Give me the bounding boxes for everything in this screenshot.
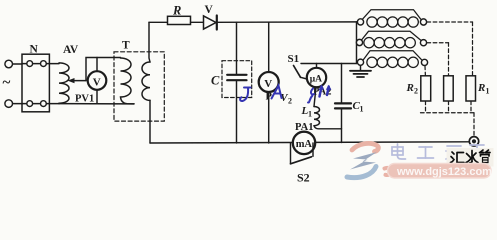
wire: PA2 to L1	[314, 87, 316, 106]
char 下 (mostly hidden)	[470, 145, 484, 157]
connector N box	[22, 54, 49, 112]
svg-text:C: C	[211, 74, 220, 88]
resistor R2	[421, 76, 431, 101]
wire: C1 branch vertical	[341, 64, 343, 104]
char 电	[392, 144, 406, 159]
milliammeter PA1 (mA)	[293, 132, 315, 154]
node: water collector terminal (bullseye)	[469, 137, 478, 146]
char 天	[446, 146, 462, 159]
char 工	[418, 147, 434, 158]
switch S2 bypass loop	[290, 143, 292, 164]
svg-text:R: R	[406, 82, 414, 94]
terminal: AC source top	[5, 60, 13, 68]
winding W1 loops	[367, 17, 419, 27]
terminal: W2 left	[356, 39, 362, 45]
svg-text:1: 1	[360, 105, 364, 114]
wire: secondary top lead up to top bus	[149, 22, 150, 62]
wire: top bus right segment	[217, 21, 358, 23]
terminal: W1 left	[357, 19, 363, 25]
winding W2 loops	[364, 38, 416, 48]
svg-text:AV: AV	[63, 44, 79, 56]
svg-text:μA: μA	[310, 74, 322, 84]
winding W2 (middle) roof	[362, 31, 421, 40]
wire: bottom row through connector N	[22, 103, 59, 105]
resistor middle (unlabeled)	[444, 76, 454, 101]
voltmeter PV2	[259, 72, 279, 92]
terminal: W3 left	[357, 59, 363, 65]
microammeter PA2 (uA)	[307, 68, 326, 87]
connector pin bottom-right	[41, 101, 47, 107]
dashed wire: W1 right to R1	[421, 22, 475, 137]
wire: top row through connector N	[22, 63, 59, 65]
watermark text 电工天下	[392, 144, 484, 159]
wire: primary bottom lead to bottom row	[59, 103, 134, 105]
wire: L1 bottom over to C1 branch	[314, 126, 342, 129]
svg-text:1: 1	[486, 87, 490, 96]
terminal: W2 right	[420, 40, 426, 46]
label 汇水管 (drawn strokes)	[451, 150, 491, 163]
wire: R to diode	[191, 21, 204, 23]
svg-text:V: V	[205, 4, 214, 16]
winding W1 (top) roof	[363, 10, 422, 20]
resistor R	[168, 16, 191, 24]
watermark url pill	[388, 164, 492, 179]
connector pin top-left	[27, 61, 33, 67]
wire: secondary bottom lead down to bottom bus	[149, 100, 151, 143]
winding W3 loops	[367, 57, 419, 67]
dashed wire: W3 right to R2	[424, 66, 426, 76]
svg-text:PV1: PV1	[75, 94, 94, 105]
svg-text:www.dgjs123.com: www.dgjs123.com	[396, 166, 492, 178]
wire: bottom bus	[150, 142, 470, 143]
terminal: W3 right	[421, 59, 427, 65]
inductor L1	[314, 107, 320, 126]
管	[480, 150, 491, 163]
wire: wiper up and over to transformer primary	[86, 58, 121, 81]
wire: top bus left segment	[149, 21, 168, 23]
autotransformer AV coil	[59, 63, 69, 103]
svg-text:R: R	[477, 82, 485, 94]
svg-text:R: R	[172, 4, 181, 18]
svg-text:~: ~	[3, 75, 11, 91]
svg-text:S1: S1	[288, 53, 300, 65]
svg-text:V: V	[264, 78, 272, 90]
wiper arrow of AV	[72, 80, 86, 82]
transformer T secondary winding	[142, 62, 150, 100]
diode V	[204, 16, 217, 29]
capacitor C plates	[227, 74, 246, 76]
blue watermark glyph (squiggle)	[308, 89, 314, 103]
ground	[360, 65, 362, 70]
capacitor C1 plates	[335, 102, 351, 104]
wire: PV2 branch vertical	[268, 22, 270, 143]
水	[466, 151, 478, 164]
svg-text:2: 2	[414, 87, 418, 96]
svg-text:mA: mA	[296, 139, 313, 150]
winding W3 (bottom) roof	[364, 51, 422, 60]
svg-text:S2: S2	[297, 171, 310, 185]
microammeter PA2 tap	[316, 64, 318, 69]
transformer T primary winding	[121, 58, 135, 104]
blue watermark glyph (hook J)	[240, 85, 331, 103]
terminal: W1 right	[420, 19, 426, 25]
wire: source bottom lead	[13, 103, 23, 105]
switch S1 blade	[294, 66, 301, 78]
svg-text:2: 2	[288, 97, 292, 106]
ground bus vertical (left of windings)	[356, 22, 358, 64]
svg-text:N: N	[30, 44, 39, 56]
dashed wires: resistor bottoms to collector line	[425, 101, 427, 113]
dashed wire: W2 right to middle resistor	[427, 42, 449, 44]
capacitor C dashed box	[222, 61, 252, 98]
wire: source top lead	[13, 63, 23, 65]
svg-text:V: V	[93, 76, 101, 88]
wire: C branch vertical	[236, 22, 238, 74]
voltmeter PV1	[96, 58, 98, 72]
blue watermark glyph (italic A)	[272, 86, 282, 99]
watermark logo swirl	[347, 143, 391, 177]
label box 汇水管	[447, 148, 494, 167]
blue watermark glyph (up arrows)	[320, 87, 322, 97]
transformer T dashed box	[114, 52, 164, 121]
汇	[451, 152, 465, 163]
wire: S1 node horizontal to ground bus	[301, 63, 357, 65]
wire: AV coil bottom to bottom row	[58, 102, 60, 104]
svg-text:T: T	[122, 40, 130, 52]
svg-text:1: 1	[308, 110, 312, 119]
resistor R1	[466, 76, 476, 101]
terminal: AC source bottom	[5, 100, 13, 108]
connector pin top-right	[41, 61, 47, 67]
connector pin bottom-left	[27, 101, 33, 107]
